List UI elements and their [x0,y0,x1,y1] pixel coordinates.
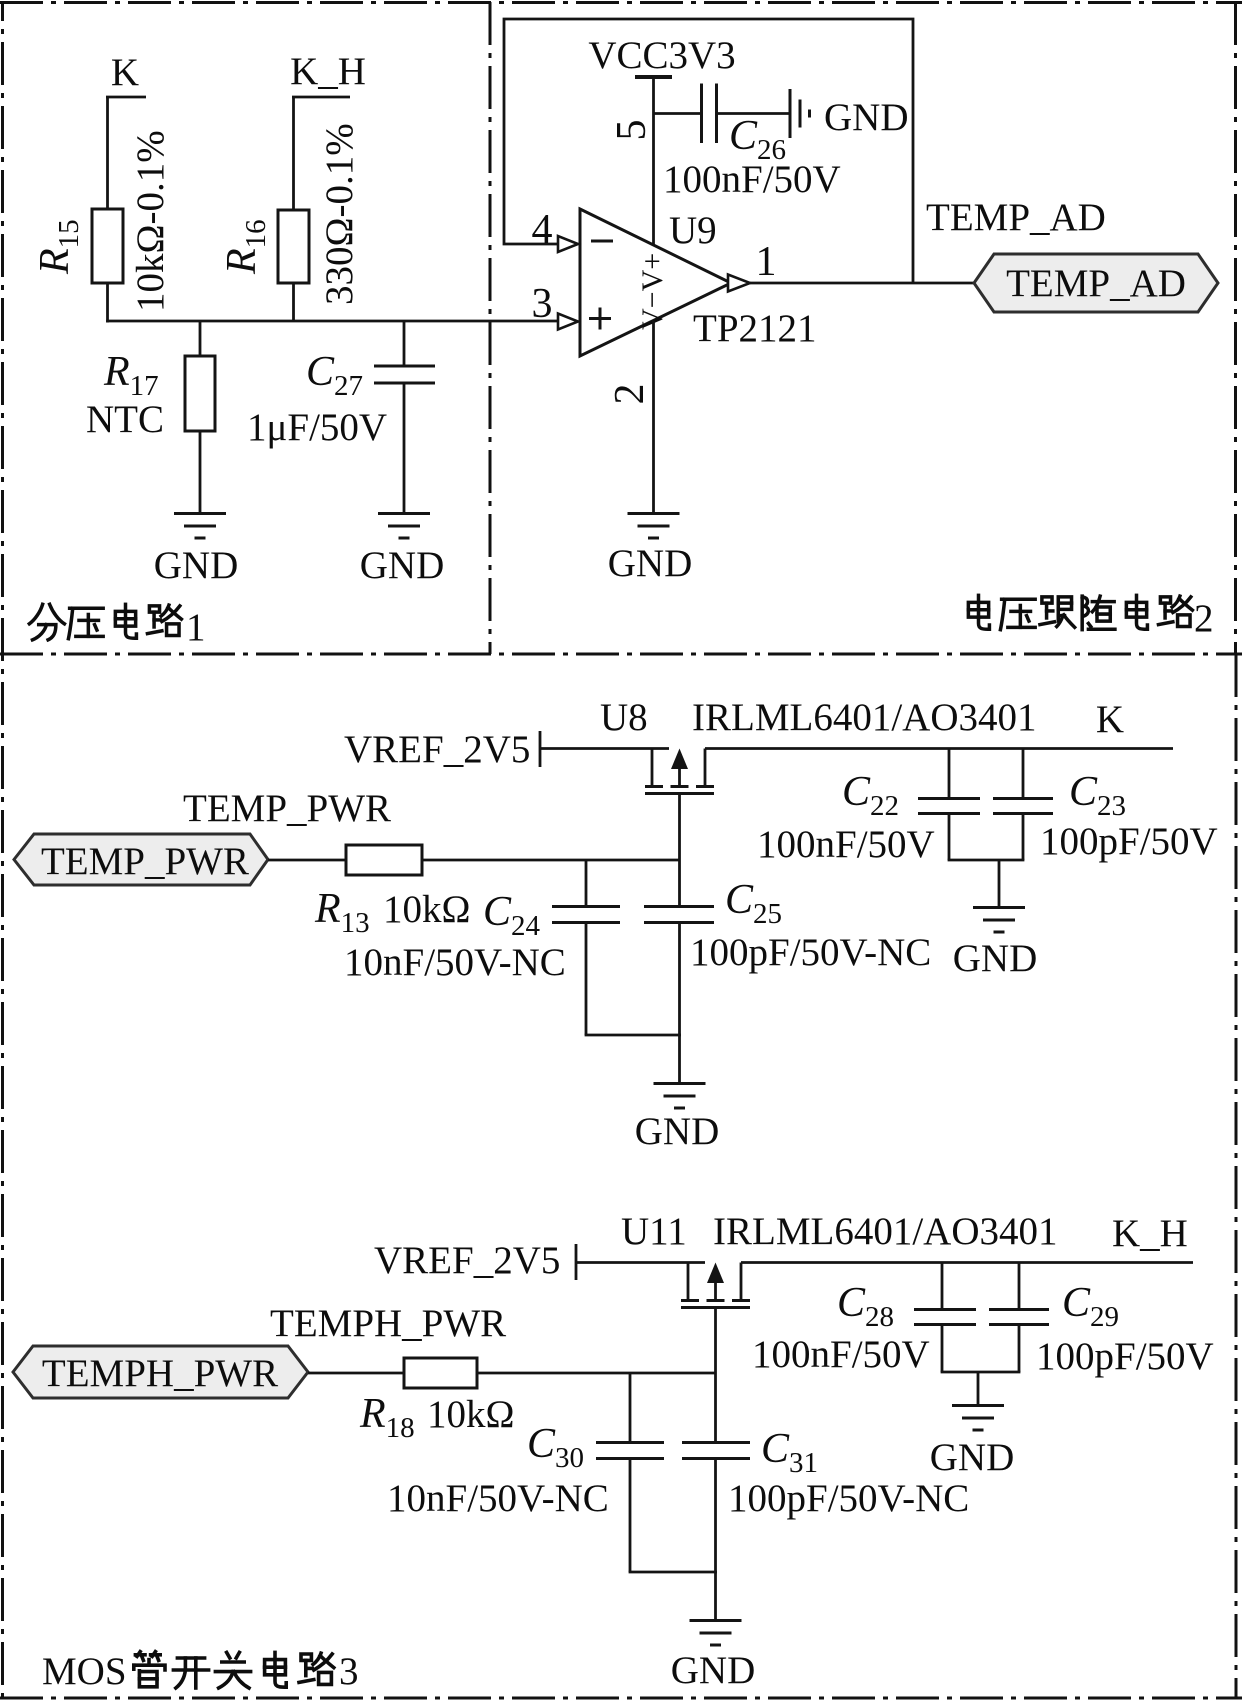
svg-text:U8: U8 [600,696,648,739]
svg-text:10nF/50V-NC: 10nF/50V-NC [387,1477,609,1520]
svg-text:TEMP_PWR: TEMP_PWR [183,787,391,830]
wire U8 drain to K [705,747,1173,750]
svg-text:IRLML6401/AO3401: IRLML6401/AO3401 [692,696,1037,739]
svg-text:C29: C29 [1062,1280,1119,1333]
svg-text:C24: C24 [483,889,541,942]
power VCC3V3 [588,34,735,77]
svg-text:V−V+: V−V+ [636,253,669,330]
U8 gate lead down to node [678,794,681,907]
wire C28 down [941,1325,944,1373]
capacitor C25 [644,877,782,930]
svg-text:C27: C27 [306,349,363,402]
pin 4 input arrow [558,236,578,252]
capacitor C28 [837,1280,976,1333]
wire C26 to sideways ground [717,112,791,115]
svg-text:GND: GND [953,937,1038,980]
output wire pin 1 to TEMP_AD connector [750,282,974,285]
svg-text:100pF/50V: 100pF/50V [1040,820,1218,863]
wire joining C22/C23 bottoms [948,859,1025,862]
svg-text:330Ω-0.1%: 330Ω-0.1% [318,123,361,305]
pin 3 input arrow [558,314,578,330]
wire to ground (C30/C31) [714,1572,717,1620]
connector TEMP_PWR [14,834,268,885]
VREF_2V5 terminal tick (U11) [575,1244,578,1280]
capacitor C30 [527,1421,664,1474]
wire VCC3V3 to op-amp pin 5 [652,77,655,245]
svg-text:TEMP_PWR: TEMP_PWR [41,840,249,883]
capacitor C23 [993,769,1126,822]
wire C25 down [678,923,681,1036]
svg-text:TEMPH_PWR: TEMPH_PWR [42,1352,278,1395]
svg-text:4: 4 [532,207,553,253]
wire to ground (C28/C29) [977,1372,980,1405]
svg-text:100nF/50V: 100nF/50V [663,158,841,201]
svg-text:VREF_2V5: VREF_2V5 [344,728,530,771]
pin 5 label [609,120,655,141]
svg-text:NTC: NTC [86,398,164,441]
wire pin5 node to C26 [654,112,702,115]
wire node to C24 [585,860,588,906]
svg-text:C23: C23 [1069,769,1126,822]
output arrow pin 1 [728,275,750,292]
wire C23 down [1022,814,1025,861]
section label 电压跟随电路2 [968,595,1213,640]
wire R17 to ground [199,431,202,513]
svg-text:C31: C31 [761,1426,818,1479]
wire node to C30 [629,1373,632,1442]
node K_H terminal [290,50,366,97]
capacitor C26 [702,84,787,167]
svg-text:TEMPH_PWR: TEMPH_PWR [270,1302,506,1345]
wire node to C27 [403,321,406,366]
svg-text:GND: GND [824,96,909,139]
svg-text:R15: R15 [32,219,85,275]
pin 2 label [607,384,653,405]
wire K_H node to C28 [941,1263,944,1310]
wire to ground (C24/C25) [678,1035,681,1083]
wire R13 to gate node [422,859,680,862]
wire R16 to node [292,283,295,321]
wire C31 down [714,1459,717,1573]
wire C29 down [1018,1325,1021,1373]
wire VREF_2V5 to U11 source [576,1261,705,1264]
svg-text:GND: GND [635,1110,720,1153]
svg-text:3: 3 [532,281,553,327]
capacitor C24 [483,889,620,942]
wire joining C28/C29 bottoms [941,1371,1021,1374]
wire to ground (C22/C23) [998,860,1001,907]
svg-text:100nF/50V: 100nF/50V [752,1333,930,1376]
svg-text:K: K [1096,698,1124,741]
wire C27 to ground [403,383,406,513]
wire K_H node to C29 [1018,1263,1021,1310]
svg-text:10kΩ: 10kΩ [427,1393,514,1436]
wire joining C30/C31 bottoms [629,1571,717,1574]
svg-text:K_H: K_H [290,50,366,93]
ground (C26, sideways) [790,89,909,139]
svg-text:100pF/50V-NC: 100pF/50V-NC [728,1477,969,1520]
wire node to op-amp pin 3 (non-inverting input) [106,320,558,323]
value 330Ω-0.1% of R16 [318,123,361,305]
wire K node to C23 [1022,749,1025,799]
svg-text:5: 5 [609,120,655,141]
svg-text:R16: R16 [219,219,272,275]
svg-text:TP2121: TP2121 [693,307,817,350]
ground (C30/C31) [671,1621,756,1693]
wire R15 to node [106,283,109,323]
svg-text:2: 2 [607,384,653,405]
frame borders (dash-dot) [0,1,1242,4]
svg-text:R17: R17 [103,349,159,402]
transistor U8 (P-MOSFET) [600,696,714,794]
svg-text:100pF/50V-NC: 100pF/50V-NC [690,931,931,974]
resistor R15 [32,209,123,283]
svg-text:GND: GND [360,544,445,587]
svg-text:C25: C25 [725,877,782,930]
svg-text:1: 1 [186,606,206,649]
op-amp U9 [580,209,817,356]
svg-text:K_H: K_H [1112,1212,1188,1255]
svg-text:GND: GND [671,1649,756,1692]
capacitor C27 [306,349,435,402]
wire K terminal to R15 [106,97,109,209]
wire joining C24/C25 bottoms [585,1034,681,1037]
svg-text:TEMP_AD: TEMP_AD [1006,262,1186,305]
resistor R16 [219,210,309,283]
capacitor C22 [842,769,980,822]
svg-text:C30: C30 [527,1421,584,1474]
svg-text:MOS: MOS [42,1650,127,1693]
ground (C24/C25) [635,1084,720,1154]
svg-text:TEMP_AD: TEMP_AD [926,196,1106,239]
pin 2 wire to ground [652,321,655,514]
ground (C28/C29) [930,1406,1015,1480]
svg-text:GND: GND [154,544,239,587]
svg-text:IRLML6401/AO3401: IRLML6401/AO3401 [713,1210,1058,1253]
transistor U11 (P-MOSFET) [621,1210,750,1308]
wire C22 down [948,814,951,861]
wire node to R17 [199,321,202,356]
wire C30 down [629,1459,632,1573]
wire TEMPH_PWR to R18 [308,1372,404,1375]
svg-text:GND: GND [930,1436,1015,1479]
section label 分压电路1 [29,604,205,649]
wire C24 down [585,923,588,1036]
connector TEMPH_PWR [13,1346,308,1398]
ground (op-amp pin 2) [608,514,693,586]
svg-text:U11: U11 [621,1210,687,1253]
capacitor C31 [682,1426,818,1479]
value 10kΩ-0.1% of R15 [129,130,172,312]
wire K node to C22 [948,749,951,799]
svg-text:R18: R18 [359,1391,415,1444]
wire VREF_2V5 to U8 source [540,747,669,750]
U11 gate lead down to node [714,1308,717,1443]
resistor R13 [314,845,470,939]
svg-text:VCC3V3: VCC3V3 [588,34,735,77]
svg-text:C28: C28 [837,1280,894,1333]
svg-text:VREF_2V5: VREF_2V5 [374,1239,560,1282]
VREF_2V5 terminal tick [539,731,542,767]
svg-text:100nF/50V: 100nF/50V [757,823,935,866]
wire U11 drain to K_H [741,1261,1193,1264]
svg-text:10nF/50V-NC: 10nF/50V-NC [344,941,566,984]
ground (C27) [360,514,445,588]
node K terminal [106,51,146,97]
svg-text:10kΩ: 10kΩ [383,888,470,931]
svg-text:100pF/50V: 100pF/50V [1036,1335,1214,1378]
connector TEMP_AD [974,254,1218,312]
svg-text:K: K [111,51,139,94]
ground (R17) [154,514,239,588]
resistor R18 [359,1358,514,1444]
section label MOS管开关电路3 [42,1650,359,1693]
ground (C22/C23) [953,908,1038,981]
resistor R17 NTC [86,349,215,441]
svg-text:1μF/50V: 1μF/50V [247,406,387,449]
wire R18 to gate node [477,1372,716,1375]
svg-text:GND: GND [608,542,693,585]
svg-text:10kΩ-0.1%: 10kΩ-0.1% [129,130,172,312]
svg-text:3: 3 [339,1650,359,1693]
wire TEMP_PWR to R13 [268,859,346,862]
wire K_H terminal to R16 [292,97,295,210]
svg-text:C22: C22 [842,769,899,822]
svg-text:2: 2 [1194,597,1214,640]
capacitor C29 [989,1280,1119,1333]
svg-text:1: 1 [756,239,777,285]
svg-text:U9: U9 [669,209,717,252]
svg-text:R13: R13 [314,886,370,939]
feedback wire from output to inverting input (pin 4) [504,19,913,283]
